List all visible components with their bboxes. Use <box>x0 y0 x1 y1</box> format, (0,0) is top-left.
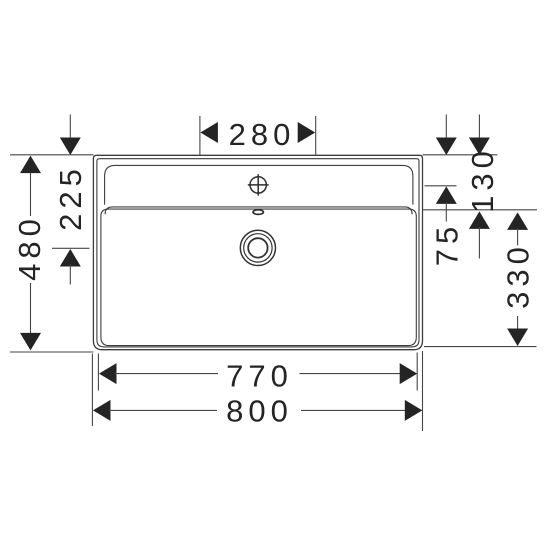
extension tick tap level right <box>425 185 457 187</box>
extension 770 left vertical <box>97 354 99 391</box>
extension tick drain level left <box>52 247 90 249</box>
dimension 330 arrow bottom <box>507 329 528 347</box>
extension line top-right <box>423 154 498 156</box>
dimension 800 line right <box>301 409 407 411</box>
dimension 130 top arrow tail <box>478 115 480 142</box>
drain inner circle <box>248 238 267 257</box>
drain outer circle <box>240 230 275 265</box>
dimension 480 arrow bottom <box>20 333 41 351</box>
washbasin outer body <box>93 155 422 349</box>
svg-text:75: 75 <box>430 222 465 266</box>
deck line upper <box>105 207 412 214</box>
extension 800 right vertical <box>422 351 424 431</box>
drain middle circle <box>244 234 272 262</box>
dimension 330 arrow top <box>507 212 528 230</box>
bowl wall and deck line lower <box>101 209 416 346</box>
dimension 770 line left <box>115 373 218 375</box>
dimension 330 bottom tail <box>517 316 519 330</box>
dimension 770 line right <box>300 373 403 375</box>
dimension 770 arrow right <box>400 363 418 384</box>
dimension 280 arrow left <box>200 122 218 143</box>
dimension 130 arrow bottom <box>469 211 490 229</box>
svg-text:330: 330 <box>501 242 536 309</box>
overflow slot <box>253 210 263 215</box>
washbasin inner rim line <box>97 159 419 347</box>
dimension 280 arrow right <box>298 122 316 143</box>
dimension 770 arrow left <box>99 363 117 384</box>
extension line top-left <box>10 154 93 156</box>
dimension 225 arrow bottom <box>60 249 81 267</box>
svg-text:480: 480 <box>12 214 47 281</box>
extension line bottom-right <box>424 346 537 348</box>
dimension 225 arrow top <box>60 138 81 156</box>
dimension 800 arrow left <box>93 400 111 421</box>
dimension 130 arrow top <box>469 138 490 156</box>
dimension 800 arrow right <box>405 400 423 421</box>
dimension 75 arrow bottom <box>436 186 457 204</box>
dimension 225 top arrow tail <box>69 115 71 142</box>
backsplash inner edge <box>105 165 413 204</box>
extension line bottom-left <box>10 351 93 353</box>
tap hole <box>248 174 269 195</box>
dimension 75 bottom arrow tail <box>445 202 447 222</box>
dimension 130 bottom arrow tail <box>478 227 480 259</box>
dimension 225 bottom arrow tail <box>69 264 71 285</box>
dimension 75 arrow top <box>436 138 457 156</box>
extension 800 left vertical <box>91 354 93 427</box>
extension 770 right vertical <box>416 353 418 391</box>
svg-text:770: 770 <box>226 359 293 394</box>
dimension 75 top arrow tail <box>445 115 447 142</box>
svg-text:225: 225 <box>53 164 88 231</box>
dimension 480 arrow top <box>20 156 41 174</box>
svg-text:800: 800 <box>226 394 293 429</box>
extension line deck level right <box>423 209 537 211</box>
tick 280 right <box>315 116 317 155</box>
dimension 480 line <box>30 168 32 338</box>
svg-text:130: 130 <box>465 146 500 213</box>
dimension 330 top tail <box>517 228 519 245</box>
svg-text:280: 280 <box>229 117 296 152</box>
dimension 800 line left <box>109 409 217 411</box>
tick 280 left <box>199 116 201 155</box>
